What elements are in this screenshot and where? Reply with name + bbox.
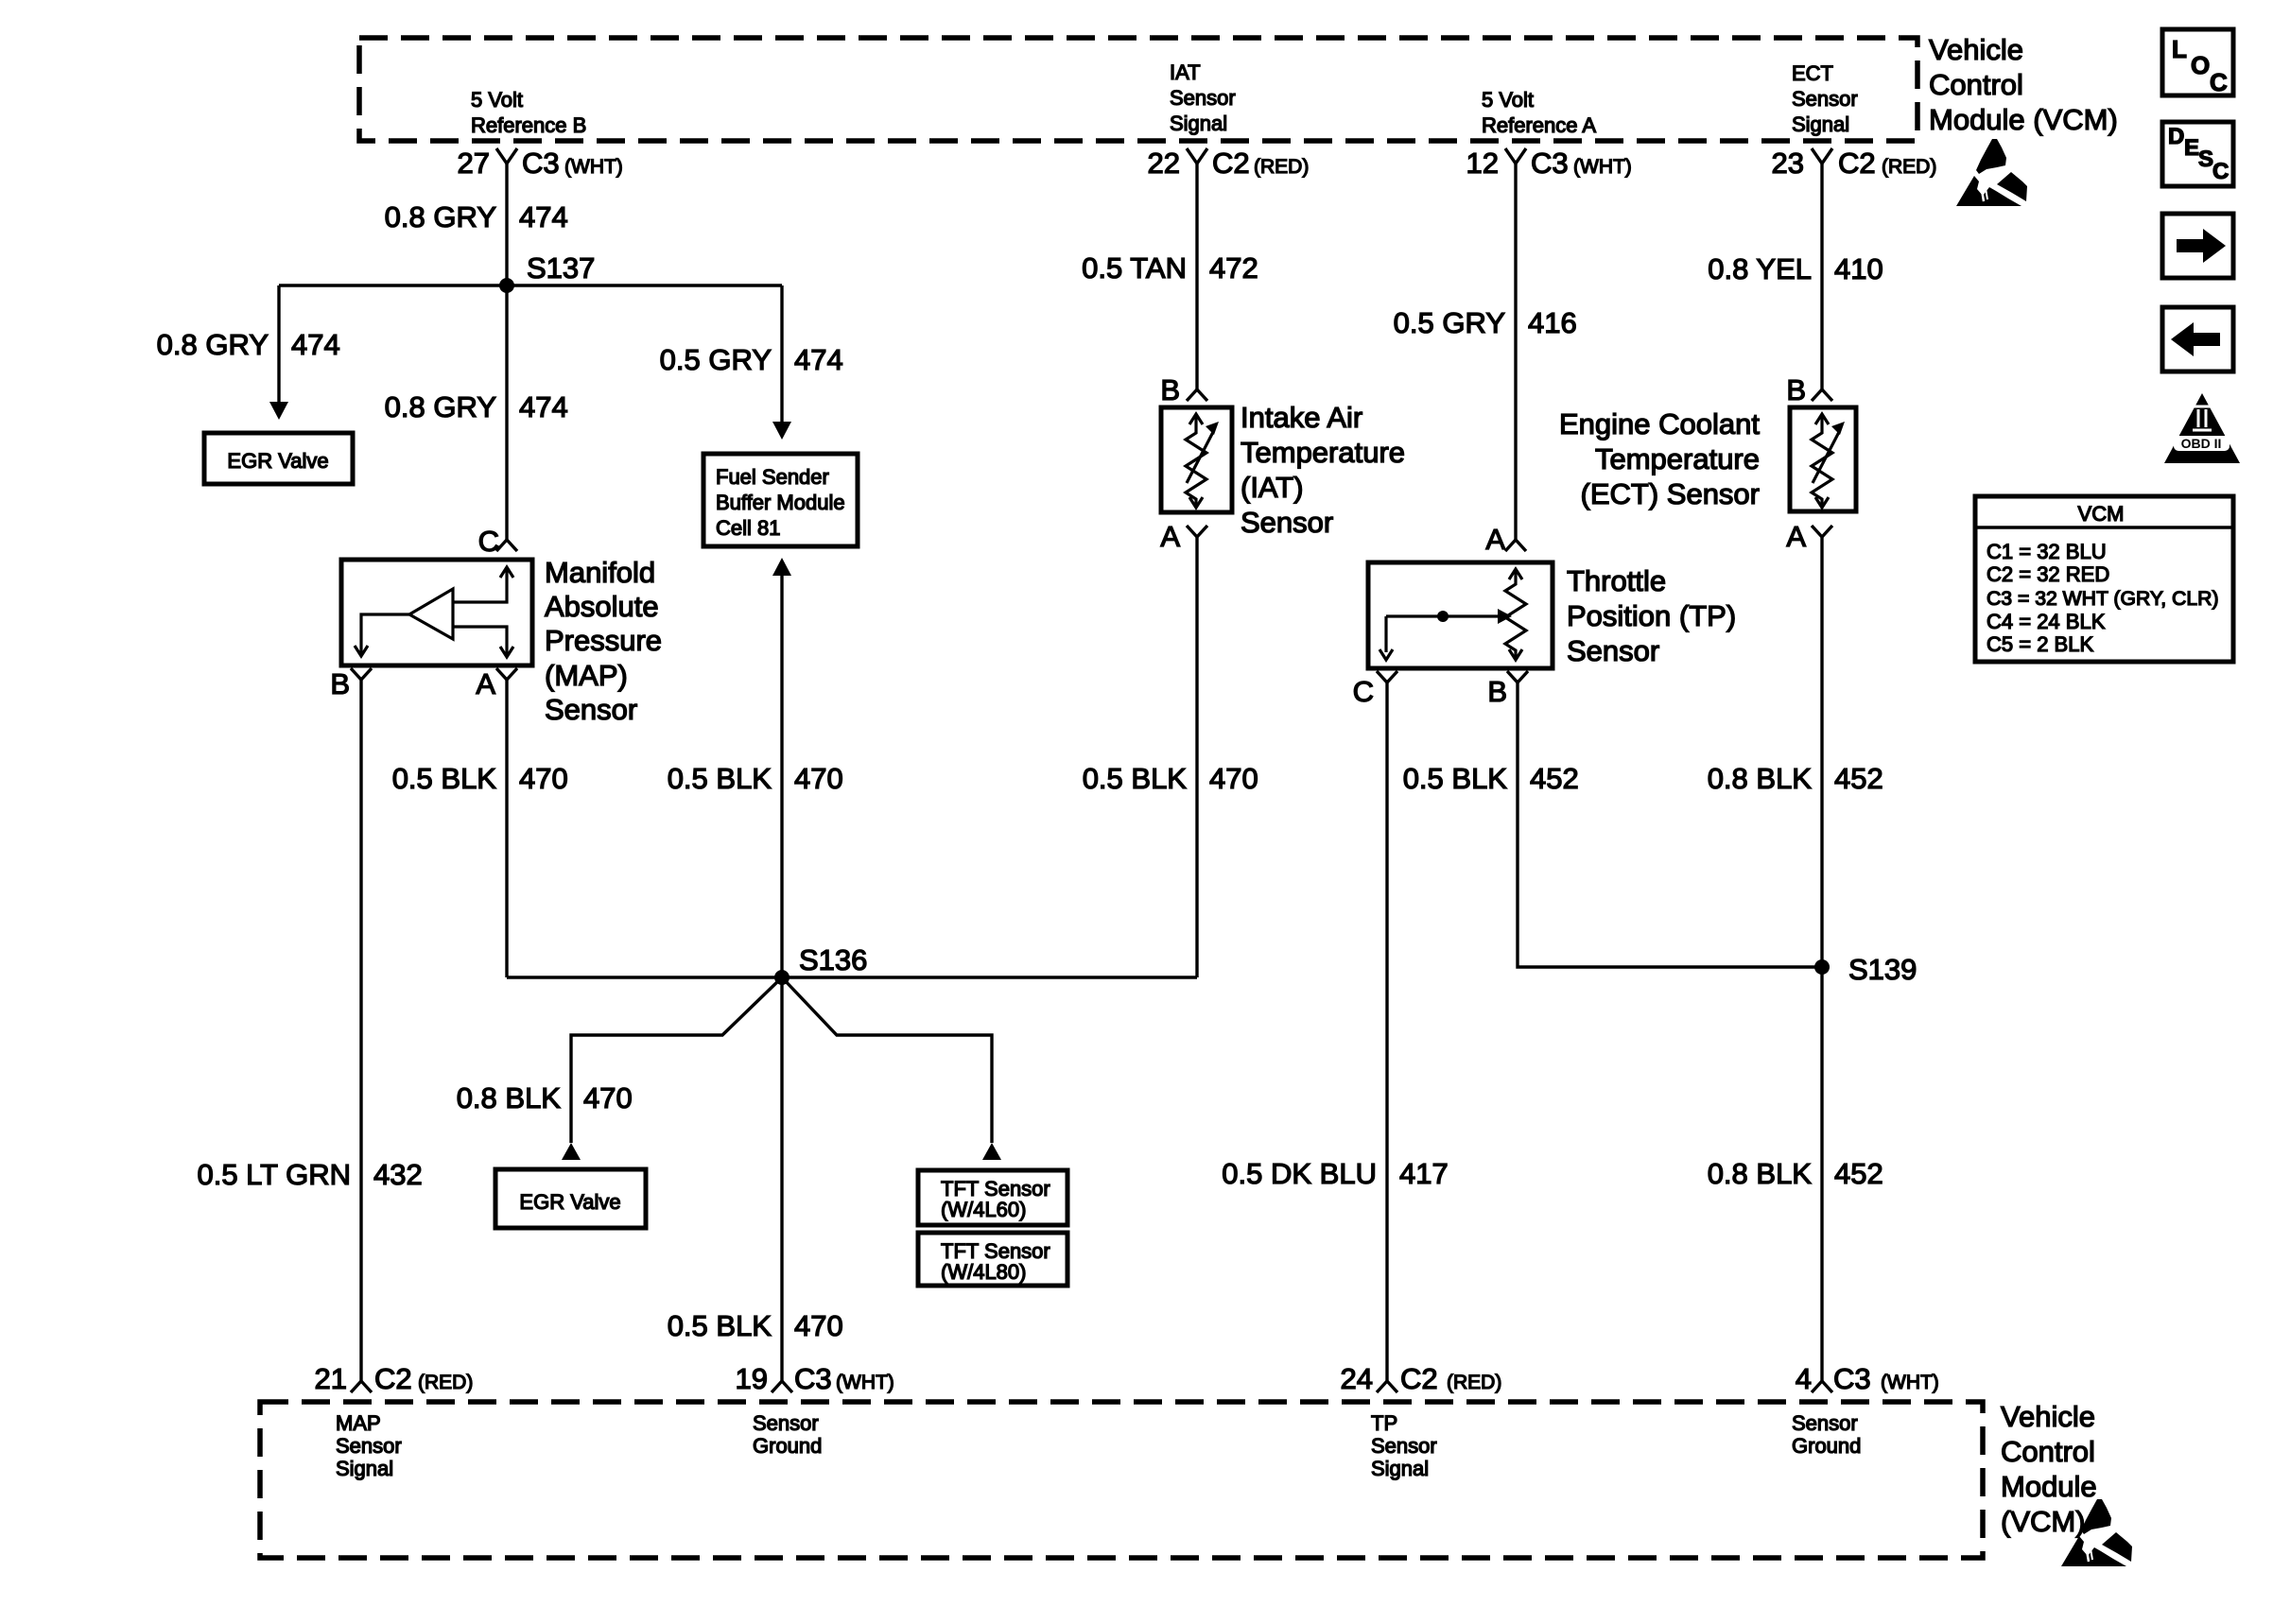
svg-text:Sensor: Sensor (545, 693, 637, 726)
icon right arrow box (2162, 214, 2233, 278)
wire 0.5 GRY 416 from pin 12 to TP A (1514, 164, 1517, 540)
svg-text:Sensor: Sensor (1371, 1434, 1437, 1458)
svg-text:0.8 GRY: 0.8 GRY (385, 200, 496, 233)
svg-text:C3 = 32 WHT (GRY, CLR): C3 = 32 WHT (GRY, CLR) (1987, 588, 2219, 610)
pin 4 C3 (WHT) (1796, 1362, 1939, 1395)
svg-text:(VCM): (VCM) (2001, 1505, 2086, 1538)
IAT sensor pin B connector (1160, 373, 1207, 406)
svg-text:432: 432 (373, 1158, 423, 1191)
svg-text:B: B (1160, 373, 1180, 406)
label 0.5 BLK 470 bottom (668, 1309, 843, 1342)
svg-text:4: 4 (1796, 1362, 1812, 1395)
svg-text:0.8 BLK: 0.8 BLK (457, 1081, 562, 1114)
svg-text:0.5 GRY: 0.5 GRY (1394, 306, 1505, 339)
pin 24 C2 (RED) (1341, 1362, 1502, 1395)
svg-text:470: 470 (794, 1309, 843, 1342)
wire 0.5 BLK 470 S136 down to pin 19 (780, 977, 783, 1381)
svg-text:Sensor: Sensor (1241, 506, 1333, 539)
svg-text:TP: TP (1371, 1411, 1397, 1435)
wire 0.5 BLK 452 TP B to S139 (1518, 682, 1822, 967)
ECT sensor pin A connector (1786, 520, 1832, 553)
icon OBD II triangle (2164, 393, 2240, 463)
svg-text:Signal: Signal (1170, 112, 1227, 135)
MAP sensor pin C connector (478, 525, 517, 558)
svg-text:Engine Coolant: Engine Coolant (1559, 407, 1760, 441)
svg-text:Sensor: Sensor (1170, 86, 1236, 110)
wire 0.8 YEL 410 from pin 23 to ECT B (1820, 164, 1823, 389)
svg-text:0.8 BLK: 0.8 BLK (1708, 1157, 1813, 1190)
ECT sensor pin B connector (1786, 373, 1832, 406)
thermistor IAT sensor (1161, 407, 1232, 512)
svg-text:0.5 BLK: 0.5 BLK (1403, 762, 1508, 795)
node Sensor Ground label left (753, 1411, 822, 1458)
svg-text:0.5 BLK: 0.5 BLK (668, 762, 772, 795)
svg-text:Control: Control (1929, 68, 2023, 101)
svg-text:A: A (1485, 523, 1505, 556)
svg-text:21: 21 (315, 1362, 347, 1395)
label Throttle Position (TP) Sensor (1567, 564, 1736, 667)
wire S136 branch to EGR valve 2 (562, 977, 782, 1160)
svg-text:474: 474 (291, 328, 340, 361)
label 0.5 BLK 470 right (1083, 762, 1258, 795)
svg-text:EGR Valve: EGR Valve (519, 1190, 620, 1214)
svg-text:470: 470 (1209, 762, 1258, 795)
EGR valve box 2 (495, 1169, 646, 1228)
svg-text:(RED): (RED) (1882, 156, 1936, 178)
TFT sensor (W/4L80) box (918, 1233, 1067, 1286)
svg-text:S139: S139 (1848, 953, 1917, 986)
icon LOC box (2162, 29, 2233, 96)
svg-text:Reference A: Reference A (1482, 113, 1596, 137)
svg-text:Throttle: Throttle (1567, 564, 1666, 597)
wire 0.5 BLK 470 IAT A down to S136 (1195, 537, 1198, 977)
svg-text:(W/4L60): (W/4L60) (941, 1198, 1026, 1221)
node MAP Sensor Signal label (336, 1411, 402, 1480)
svg-text:(RED): (RED) (418, 1372, 473, 1393)
node IAT Sensor Signal label (1170, 60, 1236, 135)
pin 19 C3 (WHT) (736, 1362, 894, 1395)
svg-text:0.5 TAN: 0.5 TAN (1082, 251, 1187, 285)
svg-text:C3: C3 (1531, 147, 1569, 180)
label Engine Coolant Temperature (ECT) Sensor (1559, 407, 1760, 510)
label 0.5 BLK 470 left (392, 762, 568, 795)
svg-text:C3: C3 (1833, 1362, 1871, 1395)
svg-text:(W/4L80): (W/4L80) (941, 1260, 1026, 1284)
svg-text:Sensor: Sensor (753, 1411, 819, 1435)
svg-text:Sensor: Sensor (1792, 87, 1858, 111)
wire 0.8 BLK 452 ECT A to pin 4 (1820, 537, 1823, 1381)
svg-text:O: O (2191, 51, 2210, 79)
svg-text:27: 27 (458, 147, 490, 180)
svg-text:B: B (1487, 675, 1507, 708)
wire 0.5 TAN 472 from pin 22 to IAT B (1195, 164, 1198, 389)
svg-text:Control: Control (2001, 1435, 2095, 1468)
svg-text:0.8 GRY: 0.8 GRY (157, 328, 269, 361)
svg-text:Ground: Ground (753, 1434, 822, 1458)
label 0.8 YEL 410 (1708, 252, 1883, 285)
svg-text:Signal: Signal (1792, 112, 1849, 136)
svg-text:Sensor: Sensor (336, 1434, 402, 1458)
splice S136 (774, 943, 867, 985)
svg-text:Pressure: Pressure (545, 624, 662, 657)
svg-text:C5 = 2 BLK: C5 = 2 BLK (1987, 632, 2093, 656)
thermistor ECT sensor (1790, 407, 1856, 511)
label 0.5 TAN 472 (1082, 251, 1258, 285)
label 0.8 BLK 470 (457, 1081, 633, 1114)
ESD sensitive device symbol top (1956, 139, 2027, 206)
pin 22 C2 (RED) (1148, 147, 1310, 180)
wire S137 horizontal bus (279, 284, 782, 286)
node TP Sensor Signal label (1371, 1411, 1437, 1480)
svg-text:12: 12 (1466, 147, 1499, 180)
svg-text:Fuel Sender: Fuel Sender (716, 465, 829, 489)
svg-text:0.8 GRY: 0.8 GRY (385, 390, 496, 423)
svg-text:C2 = 32 RED: C2 = 32 RED (1987, 562, 2109, 586)
svg-text:(RED): (RED) (1447, 1372, 1501, 1393)
svg-text:0.8 BLK: 0.8 BLK (1708, 762, 1813, 795)
TP sensor pin B connector (1487, 671, 1528, 708)
svg-text:(ECT) Sensor: (ECT) Sensor (1581, 477, 1760, 510)
svg-text:Temperature: Temperature (1595, 442, 1760, 475)
svg-text:Module: Module (2001, 1470, 2097, 1503)
svg-text:23: 23 (1772, 147, 1804, 180)
svg-text:IAT: IAT (1170, 60, 1201, 84)
wire 0.5 BLK 470 MAP A down (505, 680, 508, 977)
svg-text:C4 = 24 BLK: C4 = 24 BLK (1987, 610, 2106, 633)
svg-text:19: 19 (736, 1362, 768, 1395)
node ECT Sensor Signal label (1792, 61, 1858, 136)
svg-text:C2: C2 (1838, 147, 1876, 180)
svg-text:Sensor: Sensor (1792, 1411, 1858, 1435)
VCM module bottom dashed box (260, 1402, 1983, 1558)
label 0.8 GRY 474 upper (385, 200, 568, 233)
pin 27 C3 (WHT) (458, 147, 623, 180)
svg-text:D: D (2168, 124, 2184, 149)
svg-text:474: 474 (519, 390, 568, 423)
VCM module top dashed box (359, 38, 1917, 141)
svg-text:0.5 LT GRN: 0.5 LT GRN (197, 1158, 351, 1191)
svg-text:(MAP): (MAP) (545, 659, 628, 692)
svg-text:Vehicle: Vehicle (2001, 1400, 2095, 1433)
svg-text:C1 = 32 BLU: C1 = 32 BLU (1987, 540, 2107, 563)
pin 12 C3 (WHT) (1466, 147, 1632, 180)
MAP sensor pin B connector (330, 667, 372, 700)
svg-text:Temperature: Temperature (1241, 436, 1405, 469)
ESD sensitive device symbol bottom (2061, 1499, 2132, 1566)
svg-text:MAP: MAP (336, 1411, 381, 1435)
label 0.8 BLK 452 upper (1708, 762, 1883, 795)
label Manifold Absolute Pressure (MAP) Sensor (545, 556, 662, 726)
label 0.5 GRY 474 fuel sender branch (660, 343, 843, 376)
svg-text:(RED): (RED) (1254, 156, 1309, 178)
svg-text:(WHT): (WHT) (1573, 156, 1632, 178)
svg-text:A: A (1786, 520, 1806, 553)
svg-text:OBD II: OBD II (2181, 436, 2222, 451)
svg-text:L: L (2172, 35, 2187, 63)
TP sensor pin A connector (1485, 523, 1526, 556)
svg-text:472: 472 (1209, 251, 1258, 285)
svg-text:ECT: ECT (1792, 61, 1833, 85)
svg-text:5 Volt: 5 Volt (1482, 88, 1534, 112)
wire 0.5 DK BLU 417 TP C to pin 24 (1385, 682, 1388, 1381)
wire S136 horizontal bus (507, 976, 1197, 978)
node 5 Volt Reference A label (1482, 88, 1596, 137)
icon DESC box (2162, 122, 2233, 186)
label 0.8 GRY 474 left branch (157, 328, 340, 361)
svg-text:B: B (330, 667, 350, 700)
svg-text:416: 416 (1528, 306, 1577, 339)
splice S139 (1814, 953, 1917, 986)
label Vehicle Control Module (VCM) top (1929, 33, 2118, 136)
svg-text:(WHT): (WHT) (564, 156, 623, 178)
wire 0.5 BLK 470 S136 up to fuel sender with arrow (772, 558, 791, 977)
svg-text:Buffer Module: Buffer Module (716, 491, 845, 514)
svg-text:470: 470 (794, 762, 843, 795)
svg-text:0.5 BLK: 0.5 BLK (392, 762, 497, 795)
svg-text:Sensor: Sensor (1567, 634, 1659, 667)
label 0.8 GRY 474 center (385, 390, 568, 423)
svg-text:(IAT): (IAT) (1241, 471, 1304, 504)
svg-text:0.5 DK BLU: 0.5 DK BLU (1222, 1157, 1377, 1190)
splice S137 (499, 251, 595, 293)
svg-text:A: A (476, 667, 495, 700)
svg-text:C3: C3 (794, 1362, 832, 1395)
pin 21 C2 (RED) (315, 1362, 474, 1395)
svg-text:410: 410 (1834, 252, 1883, 285)
svg-text:0.8 YEL: 0.8 YEL (1708, 252, 1812, 285)
svg-text:470: 470 (583, 1081, 633, 1114)
label 0.5 DK BLU 417 (1222, 1157, 1448, 1190)
svg-text:24: 24 (1341, 1362, 1373, 1395)
svg-text:Position (TP): Position (TP) (1567, 599, 1736, 632)
node 5 Volt Reference B label (471, 88, 586, 137)
svg-text:474: 474 (794, 343, 843, 376)
svg-text:474: 474 (519, 200, 568, 233)
svg-text:C: C (2210, 68, 2228, 96)
label 0.5 BLK 452 (1403, 762, 1579, 795)
svg-text:Reference B: Reference B (471, 113, 586, 137)
MAP sensor pin A connector (476, 667, 517, 700)
svg-text:S: S (2198, 147, 2213, 172)
svg-text:C2: C2 (1400, 1362, 1438, 1395)
wire S136 branch to TFT sensor (782, 977, 1001, 1160)
op-amp U1 MAP sensor (341, 560, 532, 665)
svg-text:5 Volt: 5 Volt (471, 88, 523, 112)
label 0.5 GRY 416 (1394, 306, 1577, 339)
svg-text:452: 452 (1530, 762, 1579, 795)
wire to fuel sender buffer module with arrow (772, 285, 791, 440)
svg-text:Cell 81: Cell 81 (716, 516, 780, 540)
label Intake Air Temperature (IAT) Sensor (1241, 401, 1405, 539)
svg-text:C2: C2 (374, 1362, 412, 1395)
fuel sender buffer module box (703, 454, 858, 546)
svg-text:C: C (2212, 159, 2229, 184)
svg-text:C3: C3 (522, 147, 560, 180)
svg-text:470: 470 (519, 762, 568, 795)
pin 23 C2 (RED) (1772, 147, 1937, 180)
svg-text:0.5 GRY: 0.5 GRY (660, 343, 772, 376)
svg-text:C: C (478, 525, 499, 558)
svg-text:(WHT): (WHT) (1881, 1372, 1939, 1393)
svg-text:452: 452 (1834, 1157, 1883, 1190)
icon left arrow box (2162, 307, 2233, 371)
svg-text:C2: C2 (1212, 147, 1250, 180)
wire 0.8 GRY 474 from pin 27 to MAP C (505, 164, 508, 540)
svg-text:Ground: Ground (1792, 1434, 1861, 1458)
svg-text:C: C (1353, 675, 1374, 708)
IAT sensor pin A connector (1160, 520, 1207, 553)
svg-text:Manifold: Manifold (545, 556, 655, 589)
VCM connector table (1975, 496, 2233, 662)
svg-text:(WHT): (WHT) (836, 1372, 894, 1393)
svg-text:VCM: VCM (2078, 502, 2125, 526)
svg-text:S137: S137 (527, 251, 595, 285)
TP sensor pin C connector (1353, 671, 1397, 708)
svg-text:22: 22 (1148, 147, 1180, 180)
svg-text:E: E (2184, 135, 2199, 161)
svg-text:Intake Air: Intake Air (1241, 401, 1362, 434)
svg-text:Module (VCM): Module (VCM) (1929, 103, 2118, 136)
svg-text:452: 452 (1834, 762, 1883, 795)
EGR valve box (204, 433, 353, 484)
potentiometer TP sensor (1368, 562, 1553, 668)
svg-text:417: 417 (1399, 1157, 1449, 1190)
svg-text:Absolute: Absolute (545, 590, 659, 623)
svg-text:Signal: Signal (1371, 1457, 1429, 1480)
label 0.5 LT GRN 432 (197, 1158, 422, 1191)
label Vehicle Control Module (VCM) bottom (2001, 1400, 2097, 1538)
svg-text:0.5 BLK: 0.5 BLK (1083, 762, 1188, 795)
node Sensor Ground label right (1792, 1411, 1861, 1458)
label 0.5 BLK 470 center (668, 762, 843, 795)
svg-text:Vehicle: Vehicle (1929, 33, 2023, 66)
svg-text:Signal: Signal (336, 1457, 393, 1480)
svg-text:B: B (1786, 373, 1806, 406)
svg-text:A: A (1160, 520, 1180, 553)
svg-text:S136: S136 (799, 943, 867, 976)
TFT sensor (W/4L60) box (918, 1170, 1067, 1225)
wire 0.5 LT GRN 432 MAP B to pin 21 (359, 680, 362, 1381)
svg-text:0.5 BLK: 0.5 BLK (668, 1309, 772, 1342)
svg-text:EGR Valve: EGR Valve (227, 449, 328, 473)
wire to EGR valve with arrow (269, 285, 288, 420)
label 0.8 BLK 452 lower (1708, 1157, 1883, 1190)
